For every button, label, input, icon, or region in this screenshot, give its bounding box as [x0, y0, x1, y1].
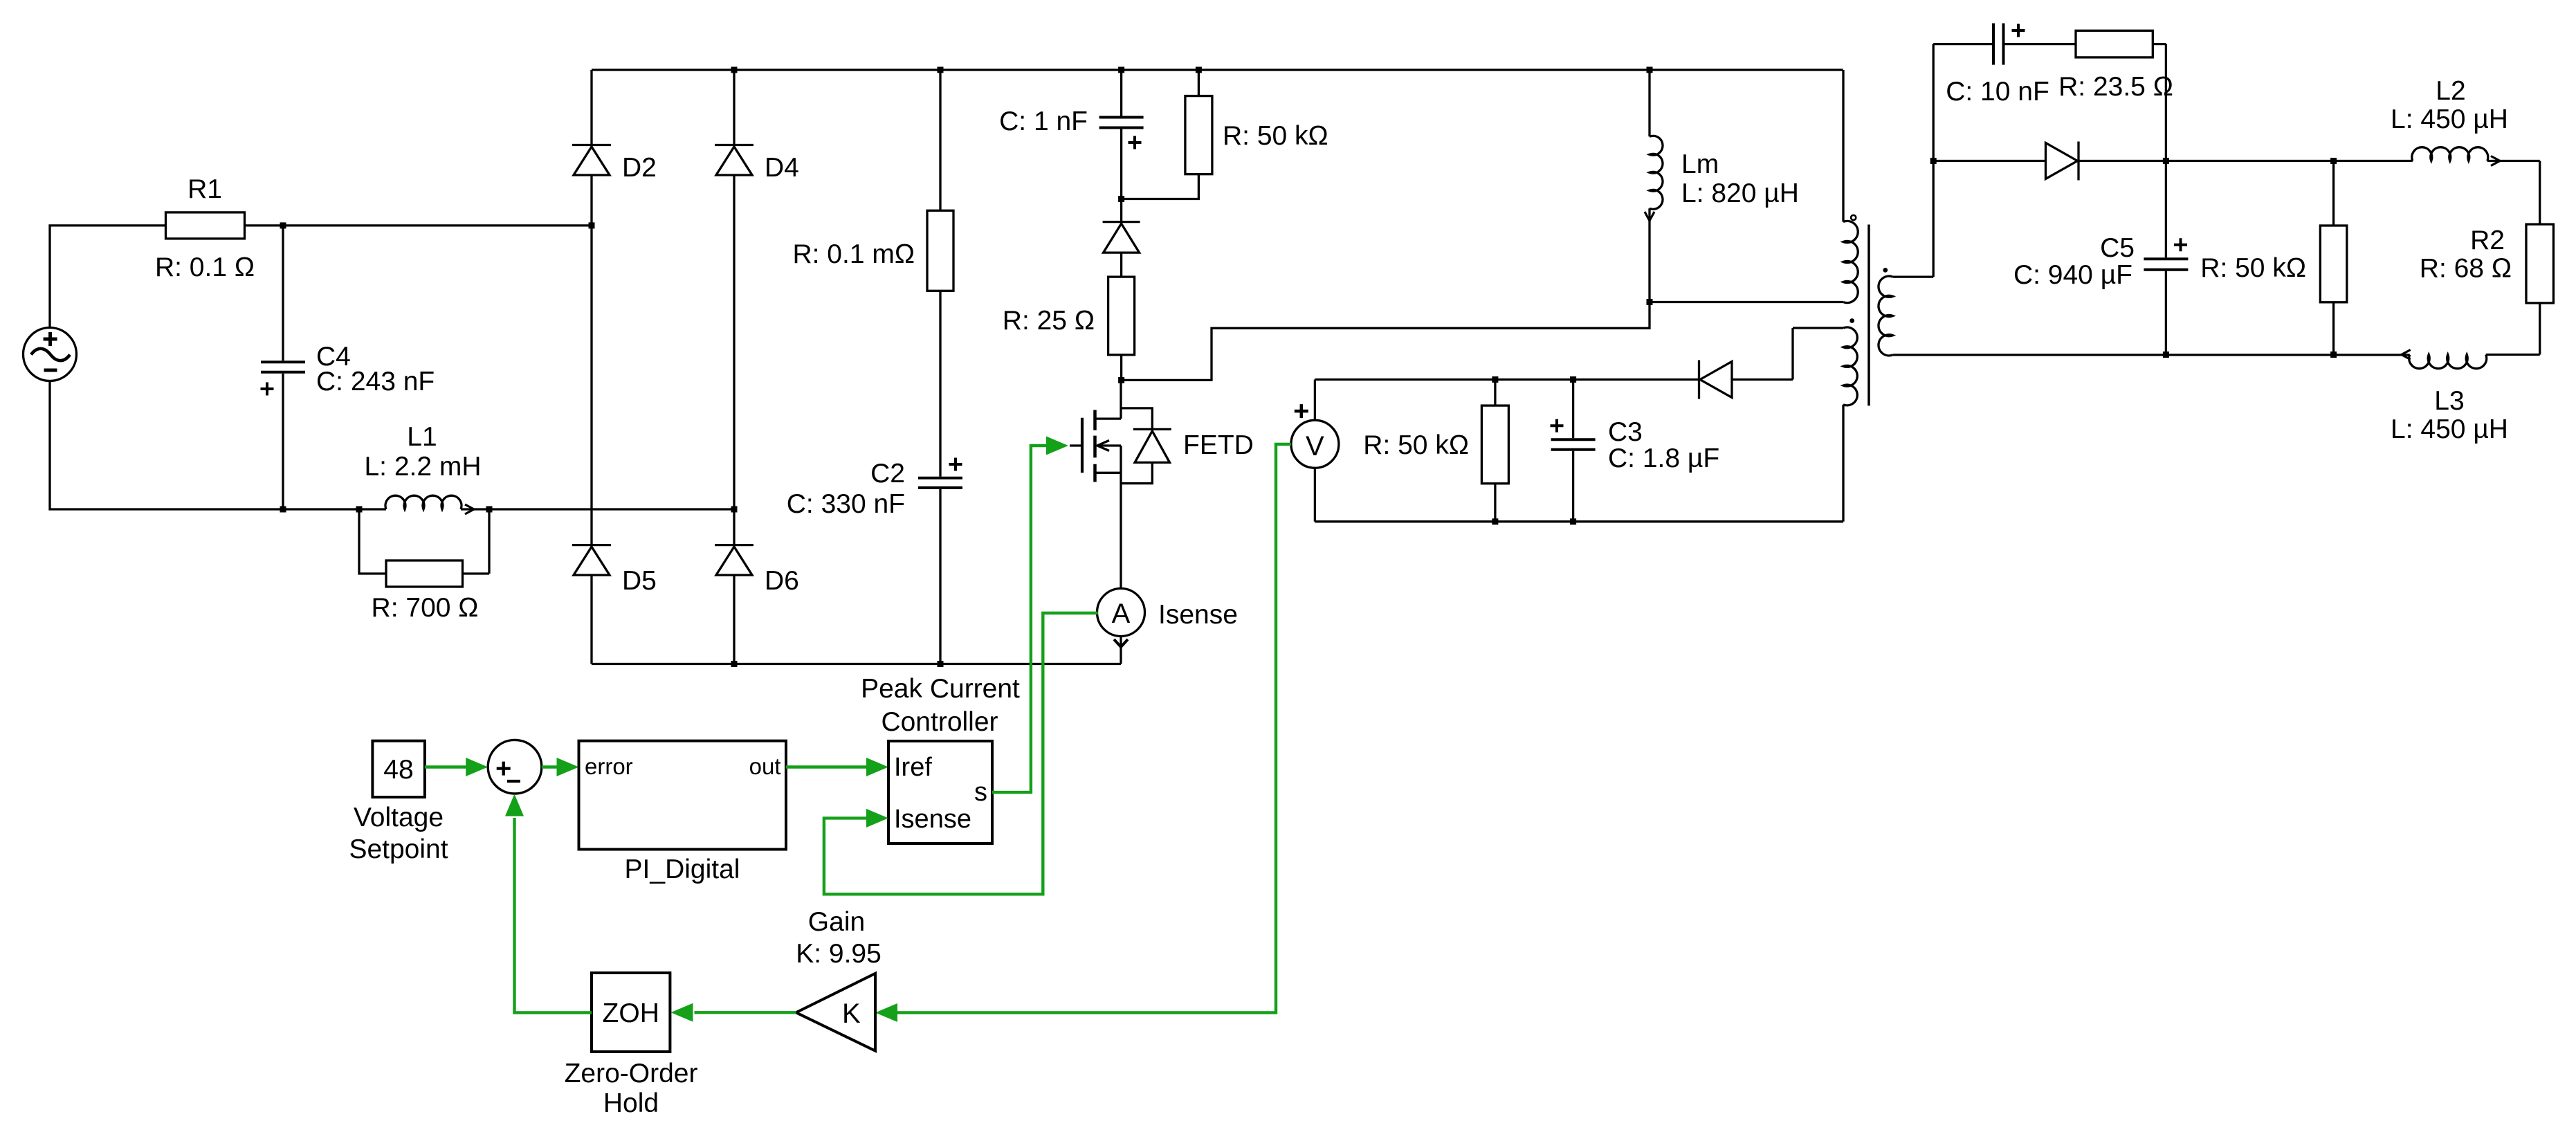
node top bus Lm column — [1647, 67, 1653, 73]
svg-text:R: 700 Ω: R: 700 Ω — [372, 593, 479, 623]
capacitor C2 — [939, 291, 941, 477]
svg-text:C5: C5 — [2100, 233, 2135, 263]
svg-text:Isense: Isense — [1158, 600, 1238, 630]
plus mark C2 — [949, 458, 962, 471]
diode D4 — [715, 144, 753, 146]
resistor R 0.1 mOhm — [939, 70, 941, 210]
node C5 top — [2163, 158, 2169, 164]
wire top bus — [592, 69, 1843, 71]
signal wire ammeter to Isense input — [824, 613, 1098, 894]
diode D6 — [715, 544, 753, 546]
inductor Lm — [1648, 70, 1650, 136]
wire Lm to primary bottom — [1650, 301, 1843, 303]
summing junction — [488, 740, 542, 794]
svg-text:D5: D5 — [622, 566, 657, 596]
node sense bottom R50k — [1492, 518, 1498, 524]
resistor R25 — [1120, 253, 1122, 277]
capacitor C3 — [1572, 380, 1574, 439]
svg-text:Hold: Hold — [603, 1088, 659, 1118]
plus mark C10nF — [2012, 24, 2025, 37]
wire D2-D5 column — [590, 70, 592, 664]
svg-text:A: A — [1112, 599, 1131, 629]
svg-text:C: 243 nF: C: 243 nF — [316, 367, 435, 396]
signal wire PI out to Iref — [786, 765, 866, 768]
resistor R 50k snubber — [1198, 70, 1200, 96]
svg-text:L1: L1 — [407, 422, 437, 452]
wire D4-D6 column — [733, 70, 735, 664]
svg-text:L2: L2 — [2436, 76, 2465, 106]
node below C1nF — [1118, 196, 1124, 202]
wire aux diode to aux winding — [1732, 328, 1793, 380]
node Lm bottom — [1647, 299, 1653, 305]
svg-text:K: 9.95: K: 9.95 — [796, 939, 881, 969]
capacitor C5 — [2165, 161, 2167, 258]
svg-text:C: 940 µF: C: 940 µF — [2013, 260, 2132, 290]
node output diode row left — [1930, 158, 1937, 164]
svg-text:L: 450 µH: L: 450 µH — [2391, 414, 2508, 444]
plus mark C5 — [2174, 238, 2187, 251]
svg-text:error: error — [585, 754, 633, 779]
inductor L2 — [2412, 147, 2488, 161]
node bottom bus C2 — [938, 661, 944, 667]
svg-text:D6: D6 — [765, 566, 799, 596]
svg-text:R1: R1 — [188, 174, 222, 204]
svg-text:L3: L3 — [2434, 386, 2464, 416]
svg-text:D4: D4 — [765, 153, 799, 183]
svg-text:C2: C2 — [870, 459, 905, 489]
svg-text:L: 2.2 mH: L: 2.2 mH — [364, 452, 481, 482]
svg-text:Voltage: Voltage — [354, 803, 444, 832]
node bottom rail C5 — [2163, 352, 2169, 358]
svg-text:C: 10 nF: C: 10 nF — [1946, 77, 2049, 107]
svg-text:K: K — [842, 998, 861, 1029]
secondary polarity dot — [1883, 268, 1888, 273]
wire R1 to bridge node A — [245, 224, 592, 226]
wire L1 to bridge node B — [461, 508, 734, 510]
svg-text:R: 0.1 Ω: R: 0.1 Ω — [155, 253, 255, 282]
svg-text:Peak Current: Peak Current — [861, 674, 1020, 704]
svg-text:C: 1.8 µF: C: 1.8 µF — [1608, 444, 1719, 473]
inductor L3 — [2409, 355, 2487, 369]
node L1 left — [356, 506, 363, 513]
node FET drain link — [1118, 377, 1124, 383]
wire sense bottom rail — [1315, 520, 1843, 522]
svg-text:R: 23.5 Ω: R: 23.5 Ω — [2058, 72, 2173, 102]
node sense top C3 — [1570, 376, 1576, 383]
svg-text:L: 820 µH: L: 820 µH — [1681, 179, 1799, 208]
svg-text:V: V — [1306, 431, 1324, 462]
block ZOH Zero-Order Hold — [592, 973, 670, 1052]
body diode of FETD — [1121, 408, 1152, 430]
resistor R 50k load — [2332, 161, 2335, 226]
signal wire s output to FET gate — [992, 446, 1046, 792]
node at C4 top — [280, 222, 286, 228]
signal wire gain to ZOH — [695, 1011, 796, 1014]
aux diode — [1698, 360, 1700, 399]
node sense top R50k — [1492, 376, 1498, 383]
node bottom bus D6 — [731, 661, 738, 667]
transformer aux winding — [1793, 327, 1843, 329]
node R load top — [2330, 158, 2337, 164]
signal wire voltmeter to gain — [897, 444, 1291, 1013]
svg-text:R2: R2 — [2470, 226, 2505, 255]
wire secondary top — [1893, 44, 1934, 277]
node bottom rail R load — [2330, 352, 2337, 358]
svg-text:s: s — [974, 778, 987, 807]
node top bus C2 column — [938, 67, 944, 73]
diode D2 — [572, 144, 611, 146]
svg-text:out: out — [749, 754, 781, 779]
node top bus R50k column — [1196, 67, 1202, 73]
gain block K 9.95 — [796, 974, 876, 1051]
svg-text:PI_Digital: PI_Digital — [625, 855, 740, 884]
svg-text:C: 330 nF: C: 330 nF — [787, 489, 905, 519]
wire AC- to bottom row — [50, 381, 386, 509]
ammeter Isense — [1097, 589, 1145, 637]
resistor R 23.5 — [2076, 30, 2153, 57]
voltmeter V — [1291, 420, 1339, 468]
output diode — [2077, 142, 2079, 181]
block PI_Digital — [579, 741, 787, 850]
wire bottom rail secondary — [1893, 354, 2410, 356]
node top bus C1nF column — [1118, 67, 1124, 73]
wire output diode row — [1933, 160, 2047, 162]
node L1 right — [486, 506, 493, 513]
wire drain link to transformer — [1122, 302, 1650, 381]
svg-text:D2: D2 — [622, 153, 657, 183]
wire sense top rail — [1315, 378, 1699, 381]
inductor L1 — [385, 495, 462, 509]
AC voltage source V_ac — [24, 328, 77, 381]
node top bus D4 — [731, 67, 738, 73]
signal wire 48 to summer — [425, 765, 466, 768]
resistor R1 — [166, 212, 245, 239]
node bottom row at D4-D6 column — [731, 506, 738, 513]
primary polarity dot — [1851, 215, 1856, 220]
plus mark C4 — [261, 383, 274, 396]
diode D5 — [572, 544, 611, 546]
resistor R damping 700 — [359, 509, 386, 574]
snubber diode — [1103, 221, 1140, 223]
signal wire ZOH to summer — [515, 818, 592, 1013]
svg-text:48: 48 — [383, 755, 413, 785]
resistor R 50k sense — [1494, 380, 1496, 406]
transformer secondary winding — [1879, 276, 1893, 356]
wire top bus to primary top — [1842, 70, 1844, 222]
svg-text:Setpoint: Setpoint — [349, 834, 448, 864]
svg-text:R: 68 Ω: R: 68 Ω — [2420, 254, 2512, 284]
wire bottom bus — [592, 663, 1121, 665]
plus mark C3 — [1551, 419, 1564, 432]
svg-text:ZOH: ZOH — [603, 998, 659, 1028]
transformer primary winding — [1843, 221, 1858, 302]
aux polarity dot — [1849, 318, 1854, 323]
svg-text:L: 450 µH: L: 450 µH — [2391, 104, 2508, 134]
constant block 48 Voltage Setpoint — [372, 741, 425, 797]
plus mark C1nF — [1129, 136, 1142, 149]
svg-text:R: 50 kΩ: R: 50 kΩ — [1363, 430, 1469, 460]
svg-text:Iref: Iref — [894, 753, 932, 782]
mosfet FETD — [1120, 380, 1122, 419]
svg-text:C: 1 nF: C: 1 nF — [999, 107, 1088, 136]
svg-text:R: 50 kΩ: R: 50 kΩ — [1223, 121, 1328, 151]
capacitor C4 — [282, 226, 284, 360]
svg-text:R: 50 kΩ: R: 50 kΩ — [2200, 253, 2306, 283]
wire snubber top — [1933, 43, 1993, 45]
capacitor C 1nF — [1120, 70, 1122, 116]
plus mark voltmeter — [1295, 404, 1308, 418]
svg-text:Isense: Isense — [894, 805, 971, 834]
svg-text:R: 0.1 mΩ: R: 0.1 mΩ — [792, 239, 915, 269]
svg-text:Controller: Controller — [881, 707, 998, 737]
node sense bottom C3 — [1570, 518, 1576, 524]
signal wire summer to PI — [542, 765, 558, 768]
wire AC+ to R1 — [50, 226, 166, 328]
node C4 bottom — [280, 506, 286, 513]
transformer core — [1867, 225, 1870, 406]
resistor R2 — [2526, 224, 2554, 303]
svg-text:FETD: FETD — [1183, 430, 1254, 460]
svg-text:Lm: Lm — [1681, 149, 1719, 179]
svg-text:R: 25 Ω: R: 25 Ω — [1003, 306, 1095, 336]
node at D2-D5 junction — [589, 222, 595, 228]
svg-text:C3: C3 — [1608, 417, 1643, 447]
svg-text:Gain: Gain — [808, 907, 865, 937]
capacitor C 10nF — [1992, 24, 1995, 65]
svg-text:Zero-Order: Zero-Order — [565, 1059, 698, 1088]
block Peak Current Controller — [888, 741, 992, 843]
